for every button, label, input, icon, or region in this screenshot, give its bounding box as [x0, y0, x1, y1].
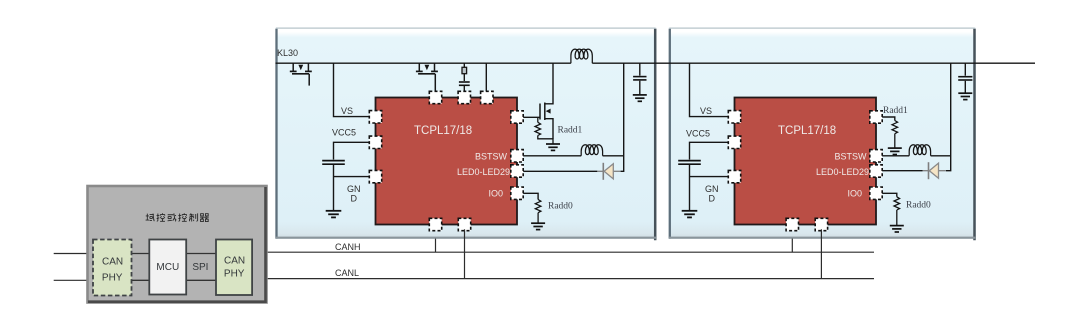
svg-text:Radd0: Radd0	[548, 202, 573, 212]
wire LED cathode to LED0-LED29 pin	[523, 170, 597, 172]
wire C2 to pin	[463, 86, 465, 91]
panel 2 border right	[973, 29, 976, 241]
panel 1 body	[275, 27, 656, 238]
wire KL30 rail to C5	[964, 63, 966, 75]
wire U2 CANL pin to CANL bus	[820, 229, 822, 278]
pin U1 top 2	[458, 91, 470, 103]
svg-text:IO0: IO0	[488, 189, 503, 199]
transistor Q1 (P-MOSFET on KL30 rail, left)	[290, 63, 312, 85]
svg-text:SPI: SPI	[192, 262, 208, 273]
IC U1 TCPL17/18	[376, 98, 518, 225]
svg-text:GN: GN	[705, 184, 719, 194]
pin U1 right gate-drive	[511, 111, 523, 123]
svg-text:Radd0: Radd0	[906, 201, 931, 211]
pin U2 right Radd1	[870, 111, 882, 123]
capacitor C2 (series to top pin 2)	[459, 82, 470, 85]
block MCU	[149, 240, 186, 295]
svg-text:PHY: PHY	[224, 268, 245, 279]
panel 1 border top	[276, 27, 656, 29]
block CAN PHY (right)	[216, 240, 252, 296]
pin U2 right LED0-LED29	[870, 165, 882, 177]
wire CANL bus	[252, 279, 874, 281]
pin U1 right BSTSW	[511, 150, 523, 162]
pin U2 right IO0	[870, 187, 882, 199]
wire CANL stub left of controller	[54, 279, 93, 281]
controller box body	[88, 186, 267, 303]
pin U1 left VS	[369, 111, 381, 123]
pin U1 bottom CANL	[458, 218, 470, 230]
inductor L3 (boost, BSTSW panel2)	[909, 145, 930, 156]
svg-text:D: D	[351, 194, 358, 204]
wire fuse to capacitor C2	[463, 74, 465, 81]
resistor Radd0	[535, 200, 541, 213]
resistor Radd1 (panel2)	[892, 121, 898, 134]
wire GND pin to left rail (panel2)	[690, 176, 729, 178]
svg-text:BSTSW: BSTSW	[834, 152, 867, 162]
pin U1 left VCC5	[369, 136, 381, 148]
wire boost node vertical (panel2)	[946, 63, 951, 171]
svg-text:GN: GN	[347, 184, 361, 194]
wire top pin3 from KL30 rail	[485, 63, 487, 91]
wire L2 right to boost node	[603, 155, 624, 157]
capacitor C3 (input cap, panel1 right)	[633, 77, 646, 80]
svg-text:Radd1: Radd1	[558, 126, 583, 136]
IC U2 TCPL17/18	[735, 98, 877, 225]
pin U2 right BSTSW	[870, 150, 882, 162]
ground (Radd1 panel2)	[888, 148, 902, 154]
pin U2 bottom CANH	[786, 218, 798, 230]
wire L3 right to boost node (panel2)	[931, 155, 951, 157]
wire KL30 rail right segment (inductor L1 to right end)	[592, 62, 1035, 64]
svg-text:LED0-LED29: LED0-LED29	[457, 167, 510, 177]
ground (C5)	[958, 93, 972, 99]
LED D2	[923, 162, 946, 179]
svg-text:TCPL17/18: TCPL17/18	[778, 125, 836, 137]
ground (panel1 left rail)	[326, 211, 342, 218]
wire VCC5 to left rail	[334, 142, 370, 159]
wire KL30 rail to C3	[639, 63, 641, 75]
panel 2 border top	[669, 27, 975, 29]
wire IO0 pin to Radd0 (panel2)	[882, 193, 897, 197]
pin U2 bottom CANL	[815, 218, 827, 230]
svg-text:VS: VS	[341, 106, 353, 116]
block CAN PHY (dashed, left)	[93, 240, 132, 296]
controller box dark edge (right/bottom)	[88, 187, 266, 302]
svg-text:VCC5: VCC5	[686, 129, 710, 139]
svg-text:CAN: CAN	[224, 255, 245, 266]
pin U2 left VCC5	[728, 136, 740, 148]
wire top pin2 chain from KL30 rail	[463, 63, 465, 67]
wire IO0 pin to Radd0	[523, 193, 538, 199]
svg-text:CANL: CANL	[335, 268, 359, 278]
panel 2 border left	[669, 29, 671, 239]
svg-text:CAN: CAN	[102, 256, 123, 267]
inductor L1 (series in KL30 rail)	[571, 49, 592, 63]
wire U2 CANH pin to CANH bus	[791, 239, 793, 253]
svg-text:PHY: PHY	[102, 272, 123, 283]
svg-text:MCU: MCU	[156, 262, 179, 273]
wire U1 CANL pin to CANL bus	[464, 229, 466, 278]
svg-text:D: D	[709, 194, 716, 204]
svg-text:CANH: CANH	[335, 242, 361, 252]
pin U2 left GND	[728, 170, 740, 182]
wire boost node vertical (KL30 rail to LED anode)	[621, 63, 624, 171]
wire CAN PHY1 to MCU (lower)	[132, 279, 150, 281]
wire CANH bus	[252, 252, 874, 253]
pin U1 top 1	[429, 91, 441, 103]
wire MCU to CAN PHY2 (lower)	[186, 279, 216, 281]
pin U1 top 3	[481, 91, 493, 103]
label 域控或控制器 (drawn strokes)	[146, 213, 209, 221]
svg-text:TCPL17/18: TCPL17/18	[414, 125, 472, 137]
ground (panel2 left rail)	[682, 211, 698, 218]
panel 2 body	[669, 27, 976, 238]
wire VCC5 to left rail (panel2)	[690, 142, 729, 159]
panel 1 border bottom	[276, 237, 656, 239]
svg-text:VCC5: VCC5	[332, 128, 356, 138]
svg-text:LED0-LED29: LED0-LED29	[816, 167, 869, 177]
ground (Radd0 panel2)	[890, 226, 904, 232]
pin U1 right IO0	[511, 187, 523, 199]
capacitor C4 (VCC5 decoupling, panel2)	[678, 161, 701, 165]
wire VS vertical from KL30 rail	[334, 63, 370, 116]
capacitor C5 (input cap, panel2 right)	[958, 77, 972, 80]
pin U1 bottom CANH	[429, 218, 441, 230]
svg-text:Radd1: Radd1	[883, 106, 908, 116]
svg-text:KL30: KL30	[277, 48, 298, 58]
transistor Q2 (P-MOSFET on KL30 rail, feeding U1 top pin)	[416, 63, 438, 91]
inductor L2 (boost, BSTSW)	[581, 145, 602, 156]
wire MCU to CAN PHY2 (upper)	[186, 253, 216, 255]
ground (Q3 source / Radd1)	[546, 144, 560, 150]
wire C4 to GND junction (panel2)	[689, 165, 691, 211]
LED D1	[597, 163, 620, 180]
wire Q1 gate lead	[308, 74, 310, 86]
wire CANH stub left of controller	[54, 253, 93, 255]
wire BSTSW pin to inductor L2	[523, 155, 581, 157]
pin U1 right LED0-LED29	[511, 165, 523, 177]
wire C1 to GND pin junction	[333, 165, 335, 211]
panel 1 border left	[275, 29, 277, 239]
transistor Q3 (N-MOSFET, LED string switch)	[540, 63, 553, 139]
ground (Radd0)	[531, 223, 545, 229]
wire BSTSW pin to inductor L3	[882, 155, 909, 157]
capacitor C1 (VCC5 decoupling)	[322, 161, 345, 165]
svg-text:VS: VS	[700, 106, 712, 116]
wire GND pin to left rail	[334, 176, 370, 178]
svg-text:IO0: IO0	[847, 189, 862, 199]
wire VS vertical from KL30 rail (panel2)	[690, 63, 729, 116]
wire Q2 gate lead to U1 top pin 1	[434, 74, 436, 91]
resistor Radd0 (panel2)	[894, 197, 900, 210]
resistor Radd1 (gate pulldown)	[537, 117, 539, 122]
svg-text:BSTSW: BSTSW	[475, 152, 508, 162]
wire KL30 rail left segment (panel1 left edge to series inductor L1)	[276, 62, 571, 64]
pin U1 left GND	[369, 170, 381, 182]
wire U1 gate-drive pin to Q3 gate	[523, 116, 540, 118]
wire LED cathode to LED0-LED29 pin (panel2)	[882, 170, 922, 172]
ground (C3)	[633, 95, 647, 101]
wire U1 CANH pin to CANH bus	[435, 239, 437, 253]
wire CAN PHY1 to MCU (upper)	[132, 253, 150, 255]
pin U2 left VS	[728, 111, 740, 123]
fuse F1 (small rectangle)	[462, 67, 467, 73]
panel 1 border right	[654, 29, 657, 241]
wire U2 pin to Radd1 (panel2)	[882, 117, 895, 121]
panel 2 border bottom	[669, 237, 975, 239]
